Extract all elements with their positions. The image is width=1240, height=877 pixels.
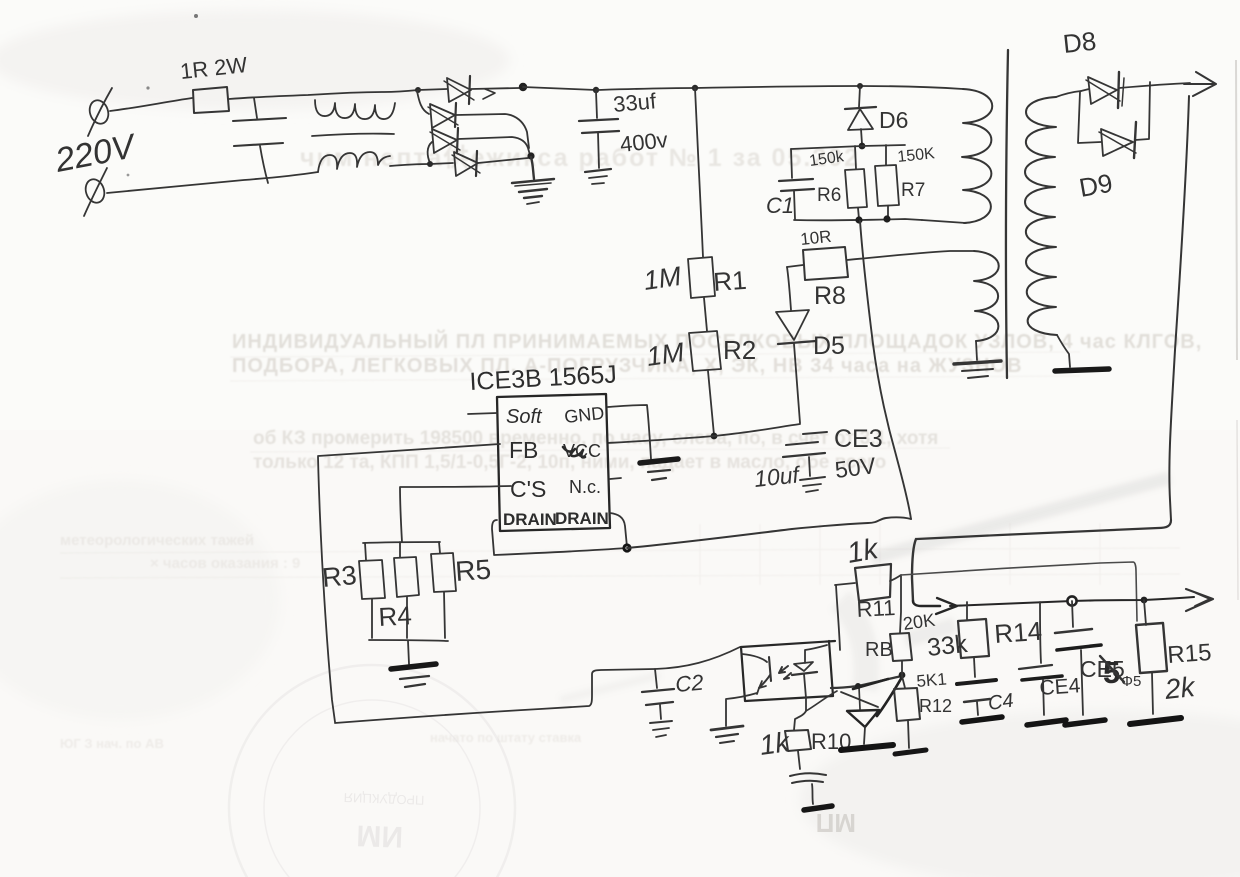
ground below R10 (thick) — [804, 806, 832, 810]
mains terminal phase N — [83, 168, 108, 216]
wire DRAIN left pin down — [492, 520, 497, 554]
capacitor C4 — [957, 658, 996, 715]
wire stub N.c. — [610, 478, 621, 479]
svg-text:R3: R3 — [321, 560, 358, 593]
opto light arrows — [779, 666, 791, 679]
ground opto emitter — [711, 726, 743, 743]
svg-text:GND: GND — [563, 403, 605, 427]
ground divider — [391, 641, 436, 687]
node R12/RB junction — [899, 672, 906, 679]
bridge diode 3 — [428, 128, 530, 163]
wire R8 to aux winding — [847, 251, 974, 260]
wire R1 to R2 — [704, 298, 707, 331]
resistor R14 33k — [958, 602, 989, 658]
common-mode choke bottom winding — [318, 152, 390, 172]
svg-text:R14: R14 — [993, 616, 1043, 649]
wire D8 to output arrow — [1119, 83, 1190, 88]
svg-text:DRAIN: DRAIN — [555, 509, 609, 528]
wire L terminal to fuse resistor — [110, 98, 192, 111]
capacitor C1 — [779, 149, 814, 219]
wire FB pin to left — [318, 444, 500, 456]
wire feedback sense to R15 — [901, 562, 1137, 621]
wire HV rail down to R1 — [695, 88, 703, 257]
opto transistor — [742, 654, 771, 694]
node snubber bottom right — [883, 215, 890, 222]
node CE5 (open) — [1067, 596, 1076, 605]
mains terminal phase L — [87, 88, 112, 136]
svg-text:N.c.: N.c. — [569, 477, 601, 497]
resistor R5 — [431, 542, 456, 638]
svg-text:начато по штату ставка: начато по штату ставка — [430, 730, 582, 745]
wire drain to snubber vertical — [627, 517, 911, 548]
svg-text:CE3: CE3 — [834, 425, 883, 453]
choke core line — [312, 134, 394, 136]
svg-text:R11: R11 — [856, 595, 896, 622]
svg-text:× часов оказания : 9: × часов оказания : 9 — [150, 555, 300, 572]
wire D8 anode down to D9 anode — [1078, 92, 1101, 143]
wire secondary top to diodes — [1056, 91, 1081, 97]
svg-text:DRAIN: DRAIN — [503, 510, 557, 529]
svg-text:ИМ: ИМ — [356, 818, 404, 853]
transformer aux winding — [974, 251, 999, 341]
svg-text:C4: C4 — [987, 690, 1015, 715]
arrow output top — [1184, 72, 1216, 96]
svg-text:C'S: C'S — [510, 476, 546, 502]
IC U1 ICE3B1565J body — [497, 394, 610, 531]
wire opto output to divider node — [831, 676, 902, 688]
output rail with arrow — [913, 597, 1194, 614]
node opto output — [855, 683, 861, 689]
node bridge top output — [519, 83, 527, 91]
bridge diode 1 — [418, 76, 519, 104]
svg-text:5: 5 — [1103, 655, 1120, 690]
svg-text:C1: C1 — [766, 193, 794, 218]
wire DRAIN right pin down — [610, 513, 627, 547]
node bridge top-left — [415, 87, 421, 93]
ghost printed text bleed-through — [60, 144, 1202, 751]
resistor R8 10R — [787, 247, 848, 280]
capacitor CE5 — [1055, 601, 1101, 715]
resistor R1 — [688, 257, 715, 298]
X capacitor stem — [254, 98, 257, 118]
arrow output end — [1186, 589, 1213, 611]
faint round stamp — [229, 665, 515, 877]
svg-text:R2: R2 — [723, 335, 756, 365]
svg-text:D9: D9 — [1077, 168, 1115, 203]
ground R12 (thick) — [895, 750, 926, 754]
X capacitor plate top — [233, 118, 286, 121]
node bridge bottom-left — [427, 161, 433, 167]
X capacitor lower stem — [260, 146, 268, 183]
bridge diode 4 — [430, 151, 528, 176]
svg-text:D8: D8 — [1061, 26, 1097, 59]
svg-text:FB: FB — [509, 437, 538, 463]
svg-text:МП: МП — [816, 808, 856, 838]
VCC wire — [608, 424, 800, 443]
wire R8 down to D5 — [787, 267, 791, 310]
wire choke to bridge bottom — [390, 164, 430, 166]
svg-text:D5: D5 — [813, 332, 845, 360]
wire R11 down to opto anode — [836, 585, 840, 650]
secondary bottom lead — [1057, 335, 1070, 367]
transformer primary winding — [962, 89, 992, 223]
divider top rail — [363, 542, 440, 543]
resistor R6 — [845, 146, 867, 219]
node R1 branch — [692, 85, 698, 91]
svg-text:1M: 1M — [645, 337, 687, 372]
ground R15 (thick) — [1130, 718, 1181, 724]
svg-text:2k: 2k — [1162, 671, 1198, 705]
ground CE5 (thick) — [1065, 720, 1105, 725]
node drain — [622, 543, 631, 552]
ground C4 (thick) — [962, 717, 1002, 722]
ground aux winding — [954, 341, 1001, 378]
wire drain bottom — [494, 548, 627, 555]
svg-text:R5: R5 — [454, 554, 492, 587]
wire bridge output to bulk cap / rail — [523, 87, 596, 90]
svg-text:R12: R12 — [919, 696, 952, 716]
wire CS pin to divider — [400, 486, 511, 542]
bridge diode 2 — [417, 91, 529, 148]
X capacitor plate bottom — [234, 143, 283, 146]
wire N terminal to bridge (bottom line) — [107, 172, 318, 193]
wire snubber to primary bottom — [922, 220, 966, 223]
svg-text:Φ5: Φ5 — [1121, 673, 1141, 690]
snubber bottom rail — [794, 219, 922, 220]
diode D5 — [776, 310, 816, 423]
resistor 1R 2W (fusible) — [193, 87, 229, 113]
capacitor C2 — [642, 669, 674, 737]
svg-text:10uf: 10uf — [753, 461, 803, 492]
common-mode choke top winding — [315, 100, 395, 119]
node bulk cap — [593, 87, 599, 93]
svg-text:5K1: 5K1 — [916, 669, 948, 691]
svg-text:C2: C2 — [674, 670, 704, 697]
svg-text:R7: R7 — [901, 180, 925, 201]
node snubber bottom left — [855, 216, 862, 223]
wire stub Soft pin — [468, 413, 497, 414]
wire LED cathode to R10 — [794, 711, 806, 730]
svg-text:ПОДБОРА, ЛЕГКОВЫХ ПЛ. А-ПОГРУЗ: ПОДБОРА, ЛЕГКОВЫХ ПЛ. А-ПОГРУЗЧИКА, Х, Э… — [232, 355, 1023, 377]
tick mark on bridge output wire — [483, 89, 495, 99]
ground bridge — [512, 157, 554, 204]
resistor R10 — [785, 730, 811, 751]
opto LED — [792, 645, 827, 711]
wire R2 down to VCC node — [708, 371, 714, 435]
shunt regulator TL431 — [841, 677, 902, 744]
svg-text:R15: R15 — [1167, 639, 1213, 669]
wire LED cathode jog to output node — [806, 691, 837, 711]
svg-text:RB: RB — [865, 639, 893, 661]
optocoupler U2 body — [741, 641, 835, 701]
HV rail wire to transformer — [596, 86, 963, 90]
resistor R2 — [689, 331, 721, 371]
capacitor 33uf 400v — [579, 91, 619, 168]
wire GND pin — [608, 405, 651, 459]
wire opto emitter to ground — [726, 693, 757, 726]
svg-text:1M: 1M — [642, 261, 684, 296]
svg-text:R8: R8 — [814, 282, 846, 310]
resistor R7 — [875, 145, 899, 218]
resistor R15 2k — [1136, 600, 1167, 714]
snubber top rail — [791, 145, 905, 149]
svg-text:Soft: Soft — [506, 406, 543, 428]
graphite smudges — [560, 478, 1170, 700]
pin label VCC with scribble — [563, 441, 601, 461]
diode D9 — [1099, 122, 1136, 158]
wire D9 cathode up to output — [1135, 82, 1150, 140]
node R15 rail — [1141, 597, 1148, 604]
long output feedback wire right side — [912, 96, 1189, 601]
divider bottom rail — [369, 640, 448, 641]
node bridge bottom output — [527, 152, 534, 159]
svg-text:ЮГ З нач. по АВ: ЮГ З нач. по АВ — [60, 736, 164, 751]
wire FB left vertical — [318, 457, 335, 722]
resistor R11 1k — [835, 564, 901, 601]
capacitor CE4 — [1019, 602, 1062, 715]
ground bulk cap — [585, 169, 611, 184]
svg-text:CE4: CE4 — [1039, 674, 1082, 700]
ground GND pin (thick) — [640, 459, 678, 480]
capacitor CE3 10uf 50V — [783, 432, 827, 492]
node D6 branch — [857, 83, 863, 89]
capacitor below R10 — [790, 751, 826, 804]
svg-text:R6: R6 — [817, 185, 841, 206]
ground TL431 (thick) — [841, 745, 893, 750]
svg-text:50V: 50V — [833, 452, 877, 483]
diode D8 — [1081, 72, 1124, 108]
node R2/VCC — [711, 433, 718, 440]
svg-text:400v: 400v — [619, 127, 669, 157]
svg-text:D6: D6 — [879, 107, 908, 133]
resistor R4 — [394, 542, 419, 638]
ground secondary (thick bar) — [1055, 369, 1109, 371]
resistor R3 — [359, 543, 385, 638]
wire feedback loop bottom — [335, 647, 740, 723]
svg-text:33k: 33k — [926, 630, 970, 662]
svg-text:33uf: 33uf — [612, 88, 658, 117]
transformer secondary winding — [1025, 97, 1057, 335]
wire fuse to bridge (top line) — [229, 90, 418, 99]
label CE5 scribbled — [1080, 655, 1141, 690]
svg-text:ПРОДУКЦИЯ: ПРОДУКЦИЯ — [343, 790, 424, 808]
svg-text:R1: R1 — [712, 265, 747, 297]
wire snubber down to drain — [860, 221, 911, 519]
resistor RB 20K — [890, 576, 912, 675]
resistor R12 5K1 — [894, 676, 920, 748]
svg-text:метеорологических тажей: метеорологических тажей — [60, 532, 254, 549]
diode D6 — [845, 86, 876, 144]
svg-text:R4: R4 — [378, 600, 413, 632]
transformer core — [1006, 50, 1008, 378]
svg-text:10R: 10R — [799, 227, 832, 249]
ground CE4 (thick) — [1027, 720, 1066, 725]
node snubber top — [859, 143, 866, 150]
